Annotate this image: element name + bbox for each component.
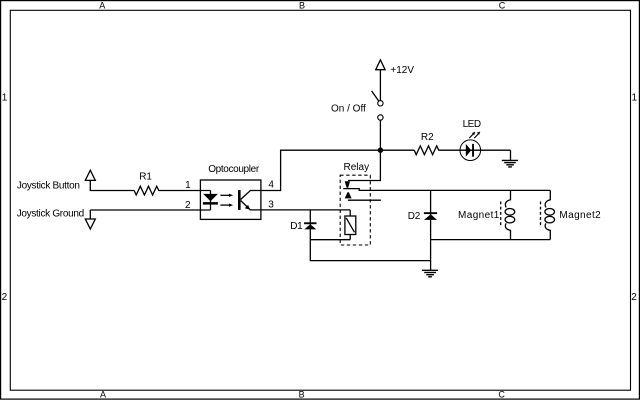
svg-text:4: 4 — [268, 179, 274, 190]
svg-text:1: 1 — [2, 92, 8, 103]
svg-text:C: C — [499, 1, 506, 11]
svg-text:A: A — [99, 1, 105, 11]
svg-text:On / Off: On / Off — [331, 104, 366, 115]
svg-text:B: B — [299, 1, 305, 11]
svg-text:2: 2 — [631, 292, 637, 303]
svg-text:LED: LED — [463, 119, 481, 130]
svg-text:Joystick Button: Joystick Button — [17, 181, 80, 192]
svg-text:2: 2 — [185, 200, 191, 211]
svg-text:R1: R1 — [139, 172, 152, 183]
svg-text:Magnet2: Magnet2 — [559, 210, 601, 221]
svg-text:Optocoupler: Optocoupler — [208, 164, 260, 175]
svg-text:C: C — [498, 390, 505, 400]
svg-text:Relay: Relay — [344, 162, 370, 173]
svg-text:+12V: +12V — [390, 65, 414, 76]
svg-text:D2: D2 — [408, 211, 421, 222]
svg-text:1: 1 — [632, 92, 638, 103]
svg-text:Magnet1: Magnet1 — [458, 210, 500, 221]
svg-text:1: 1 — [185, 180, 191, 191]
svg-text:Joystick Ground: Joystick Ground — [17, 208, 84, 219]
svg-text:B: B — [299, 390, 305, 400]
svg-text:R2: R2 — [421, 132, 434, 143]
svg-text:A: A — [100, 389, 106, 399]
svg-text:D1: D1 — [290, 221, 303, 232]
svg-text:3: 3 — [268, 199, 274, 210]
svg-text:2: 2 — [2, 292, 8, 303]
